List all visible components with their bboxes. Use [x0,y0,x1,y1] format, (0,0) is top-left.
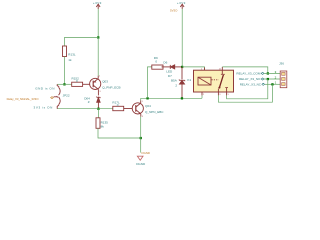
svg-text:+3V3: +3V3 [93,1,102,5]
node junction COM [267,72,269,74]
wire top horizontal [64,36,98,38]
svg-text:RELAY_X3_COM: RELAY_X3_COM [236,72,260,76]
svg-text:R13L: R13L [68,53,76,57]
node junction top [97,36,99,38]
wire Q04 emitter down [140,117,142,153]
svg-text:0: 0 [117,103,119,107]
transistor Q04 [132,100,143,116]
wire Q03 emitter vertical [97,37,99,76]
wire NC row [265,83,280,85]
node junction LED row [181,66,183,68]
resistor R152 [72,82,83,86]
wire NO row [264,78,280,80]
diode D6 LED [170,65,182,69]
svg-text:0: 0 [76,79,78,83]
svg-text:1k: 1k [68,58,72,62]
node junction coil row left [146,97,148,99]
node junction NO [267,78,269,80]
wire R152 to Q03 base [83,83,90,85]
svg-text:Q03: Q03 [102,79,108,83]
node junction ground row [140,137,142,139]
wire signal row horizontal [57,108,113,110]
power +3V3 (right) symbol [180,4,184,9]
wire LED row to relay coil [182,67,204,70]
wire +3V3 right vertical [181,9,183,67]
node junction signal row [97,108,99,110]
wire R135 to ground row [98,128,141,138]
svg-text:2: 2 [175,83,177,87]
wire riser to LED branch [148,67,152,98]
node junction left row [63,83,65,85]
svg-text:5V3O: 5V3O [170,9,178,13]
contact lever [221,70,223,74]
ground symbol [137,156,143,160]
wire left vertical to R131 [63,37,65,46]
svg-text:B5A: B5A [171,78,178,82]
relay pin stubs [202,67,227,96]
svg-text:Q04: Q04 [145,104,151,108]
node junction NC [271,83,273,85]
svg-text:RELAY_X3_NC: RELAY_X3_NC [240,83,262,87]
svg-text:DGND: DGND [136,162,146,166]
coil [198,77,211,85]
dashed link [212,79,219,81]
power +3V3 (left) symbol [96,4,100,9]
svg-text:3V3 is ON: 3V3 is ON [34,105,53,109]
svg-text:0: 0 [155,59,157,63]
resistor R131 [63,46,67,57]
svg-text:+3V3: +3V3 [177,1,186,5]
svg-text:Q_PNP_ECB: Q_PNP_ECB [102,86,120,90]
svg-text:DGND: DGND [142,151,151,155]
svg-text:Z: Z [88,100,90,104]
svg-text:J36: J36 [279,62,284,66]
wire NO return loop [227,79,268,99]
wire left row horizontal [57,83,71,85]
wire NC return loop [218,84,272,102]
svg-text:D7: D7 [168,74,172,78]
wire COM top [222,67,267,74]
diode D7 zener flyback [179,67,185,98]
svg-text:Relay_X3_SIGNAL_3V3O: Relay_X3_SIGNAL_3V3O [7,97,40,101]
resistor R2 [152,65,163,69]
svg-text:JP22: JP22 [63,94,70,98]
wire R2 to LED [162,66,171,68]
diode D04 zener [97,97,101,109]
svg-text:8k: 8k [101,125,105,129]
wire Q04 collector up [140,98,142,100]
wire COM to connector [264,72,280,74]
wire coil return up [201,95,203,98]
jumper JP22 [54,84,61,108]
transistor Q03 [90,76,101,96]
svg-text:RELAY_X3_NO: RELAY_X3_NO [239,77,261,81]
node junction coil row right [181,97,183,99]
wire R131 to bottom row [63,57,65,85]
svg-text:K1: K1 [187,78,191,82]
svg-text:GND is ON: GND is ON [35,86,55,90]
wire coil row horizontal [141,97,202,99]
svg-text:Q_NPN_EBC: Q_NPN_EBC [145,110,164,114]
svg-text:D6: D6 [163,60,167,64]
resistor R173 [113,106,124,110]
wire +3V3 left vertical [97,9,99,38]
resistor R135 [97,109,99,118]
wire R173 to Q04 base [124,108,133,110]
